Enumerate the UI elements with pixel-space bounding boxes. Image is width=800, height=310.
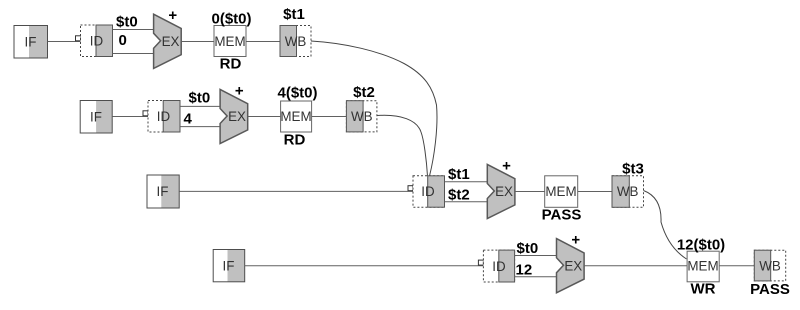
ID stage box (instr 3) bbox=[413, 176, 445, 207]
ALU EX (instr 3) bbox=[487, 164, 515, 218]
IF stage box (instr 2) bbox=[80, 101, 112, 134]
MEM stage box (instr 1) bbox=[214, 26, 246, 57]
wire MEM-WB (instr 2) bbox=[312, 116, 347, 118]
MEM stage box (instr 3) bbox=[545, 176, 578, 208]
svg-text:ID: ID bbox=[492, 259, 506, 274]
svg-text:+: + bbox=[235, 82, 244, 99]
operand wire 0 (instr 1) bbox=[113, 53, 154, 55]
svg-text:MEM: MEM bbox=[214, 34, 245, 49]
WB stage box (instr 3) bbox=[612, 176, 644, 208]
operand wire 12 (instr 4) bbox=[515, 276, 557, 278]
ALU EX (instr 4) bbox=[557, 239, 585, 293]
operand wire $t0 (instr 1) bbox=[113, 29, 154, 31]
svg-text:$t0: $t0 bbox=[189, 90, 211, 107]
svg-text:IF: IF bbox=[157, 184, 169, 199]
ID stage box (instr 1) bbox=[81, 25, 113, 57]
svg-text:$t1: $t1 bbox=[283, 6, 305, 23]
forwarding wire WB3 to MEM4 bbox=[644, 191, 687, 260]
svg-text:MEM: MEM bbox=[545, 184, 576, 199]
svg-text:MEM: MEM bbox=[687, 259, 718, 274]
operand wire $t1 (instr 3) bbox=[445, 181, 488, 183]
wire IF-ID (instr 2) bbox=[112, 116, 148, 118]
svg-text:$t1: $t1 bbox=[448, 166, 470, 183]
ID stage box (instr 2) bbox=[148, 101, 180, 133]
svg-text:EX: EX bbox=[564, 258, 582, 273]
svg-text:ID: ID bbox=[157, 109, 171, 124]
svg-text:PASS: PASS bbox=[542, 207, 582, 224]
WB stage box (instr 1) bbox=[280, 26, 311, 57]
operand wire 4 (instr 2) bbox=[180, 126, 220, 128]
WB stage box (instr 2) bbox=[346, 101, 377, 132]
WB stage box (instr 4) bbox=[754, 250, 785, 281]
forwarding wire WB2 to ID3 bbox=[377, 115, 428, 176]
svg-text:$t2: $t2 bbox=[448, 187, 470, 204]
operand wire $t0 (instr 2) bbox=[180, 105, 220, 107]
input port square (instr 3) bbox=[408, 186, 413, 191]
ALU EX (instr 1) bbox=[154, 14, 182, 68]
svg-text:WB: WB bbox=[617, 184, 639, 199]
forwarding wire WB1 to ID3 bbox=[311, 41, 437, 176]
input port square (instr 4) bbox=[478, 260, 483, 265]
svg-text:0: 0 bbox=[119, 32, 127, 49]
svg-text:WR: WR bbox=[691, 281, 716, 298]
IF stage box (instr 3) bbox=[147, 175, 179, 208]
wire MEM-WB (instr 3) bbox=[578, 191, 612, 193]
svg-text:$t0: $t0 bbox=[116, 14, 138, 31]
IF stage box (instr 1) bbox=[14, 26, 48, 59]
svg-text:$t0: $t0 bbox=[517, 240, 539, 257]
wire IF-ID (instr 3) bbox=[179, 190, 413, 192]
svg-text:MEM: MEM bbox=[280, 109, 311, 124]
svg-text:4($t0): 4($t0) bbox=[277, 85, 317, 102]
svg-text:WB: WB bbox=[351, 109, 373, 124]
wire MEM-WB (instr 1) bbox=[246, 41, 280, 43]
MEM stage box (instr 4) bbox=[687, 251, 719, 282]
svg-text:ID: ID bbox=[90, 34, 104, 49]
svg-text:+: + bbox=[571, 232, 580, 249]
IF stage box (instr 4) bbox=[213, 250, 245, 282]
MEM stage box (instr 2) bbox=[280, 101, 311, 132]
svg-text:IF: IF bbox=[90, 110, 102, 125]
wire IF-ID (instr 1) bbox=[48, 41, 81, 43]
wire MEM-WB (instr 4) bbox=[719, 265, 754, 267]
svg-text:+: + bbox=[502, 157, 511, 174]
wire EX-MEM (instr 4) bbox=[584, 265, 687, 267]
input port square (instr 1) bbox=[76, 36, 81, 41]
svg-text:$t2: $t2 bbox=[353, 84, 375, 101]
wire IF-ID (instr 4) bbox=[245, 265, 484, 267]
svg-text:12($t0): 12($t0) bbox=[677, 237, 725, 254]
svg-text:IF: IF bbox=[223, 259, 235, 274]
svg-text:+: + bbox=[168, 7, 177, 24]
svg-text:EX: EX bbox=[162, 34, 180, 49]
svg-text:12: 12 bbox=[516, 261, 533, 278]
ID stage box (instr 4) bbox=[483, 250, 514, 282]
svg-text:4: 4 bbox=[184, 111, 193, 128]
svg-text:WB: WB bbox=[759, 259, 781, 274]
wire EX-MEM (instr 3) bbox=[515, 191, 545, 193]
wire EX-MEM (instr 1) bbox=[181, 41, 214, 43]
svg-text:WB: WB bbox=[285, 34, 307, 49]
wire EX-MEM (instr 2) bbox=[248, 116, 281, 118]
svg-text:ID: ID bbox=[421, 184, 435, 199]
svg-text:RD: RD bbox=[220, 56, 242, 73]
ALU EX (instr 2) bbox=[220, 89, 248, 143]
operand wire $t0 (instr 4) bbox=[515, 255, 557, 257]
svg-text:EX: EX bbox=[495, 184, 513, 199]
svg-text:0($t0): 0($t0) bbox=[211, 11, 251, 28]
svg-text:EX: EX bbox=[228, 109, 246, 124]
operand wire $t2 (instr 3) bbox=[445, 201, 488, 203]
svg-text:RD: RD bbox=[284, 132, 306, 149]
svg-text:$t3: $t3 bbox=[622, 161, 644, 178]
svg-text:PASS: PASS bbox=[750, 281, 790, 298]
svg-text:IF: IF bbox=[25, 34, 37, 49]
input port square (instr 2) bbox=[143, 111, 148, 116]
